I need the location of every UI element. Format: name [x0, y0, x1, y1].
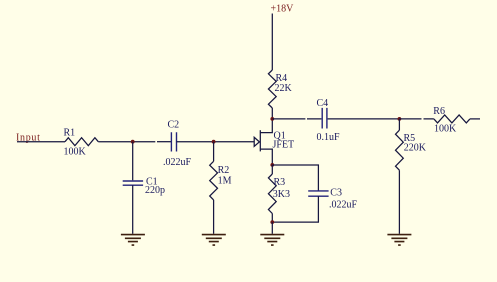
wire node D to C3 top	[272, 165, 318, 191]
svg-text:C2: C2	[168, 120, 180, 131]
svg-text:3K3: 3K3	[273, 189, 290, 200]
transistor Q1 gate arrow	[254, 137, 259, 146]
wire R3 to node F	[271, 214, 273, 223]
wire input	[17, 141, 65, 143]
svg-text:.022uF: .022uF	[329, 199, 358, 210]
wire node D to R3	[271, 165, 273, 174]
ground GND2	[202, 235, 226, 246]
node B junction	[212, 140, 216, 144]
wire node A to C2	[157, 141, 171, 143]
node A junction	[131, 140, 135, 144]
wire R4 to node C	[271, 108, 273, 119]
ground GND1	[121, 235, 145, 246]
svg-text:220K: 220K	[404, 143, 427, 154]
capacitor C1	[123, 181, 143, 185]
wire R1 to node A	[98, 141, 155, 143]
transistor Q1 drain lead	[260, 119, 272, 133]
wire node F to ground	[271, 222, 273, 234]
svg-text:C3: C3	[330, 188, 342, 199]
wire C2 to gate	[177, 141, 255, 143]
wire C1 branch top	[132, 142, 134, 181]
svg-text:R6: R6	[433, 106, 445, 117]
wire node E to R6	[399, 118, 434, 120]
capacitor C2	[171, 132, 176, 151]
wire +18V to R4	[271, 14, 273, 71]
wire C3 bottom to node F	[272, 196, 318, 222]
svg-text:+18V: +18V	[271, 4, 295, 15]
capacitor C3	[308, 191, 328, 196]
svg-text:R2: R2	[218, 165, 230, 176]
ground GND3	[260, 235, 284, 246]
node C junction	[270, 117, 274, 121]
resistor R6	[434, 115, 470, 123]
resistor R5	[396, 130, 404, 170]
node D junction	[270, 163, 274, 167]
svg-text:0.1uF: 0.1uF	[317, 132, 341, 143]
wire node B to R2	[213, 142, 215, 162]
resistor R2	[210, 161, 218, 200]
svg-text:JFET: JFET	[273, 139, 295, 150]
svg-text:100K: 100K	[64, 147, 87, 158]
node E junction	[398, 117, 402, 121]
svg-text:R3: R3	[274, 177, 286, 188]
svg-text:100K: 100K	[434, 124, 457, 135]
wire C4 to node E	[328, 118, 400, 120]
resistor R3	[268, 174, 276, 214]
wire node C to C4	[272, 118, 321, 120]
svg-text:220p: 220p	[145, 185, 165, 196]
svg-text:1M: 1M	[218, 176, 232, 187]
transistor Q1 channel bar	[259, 130, 261, 151]
svg-text:.022uF: .022uF	[163, 157, 192, 168]
node F junction	[270, 220, 274, 224]
wire node E to R5	[398, 119, 400, 130]
resistor R4	[268, 70, 276, 108]
wire R2 to ground	[213, 200, 215, 234]
wire R6 output	[470, 118, 480, 120]
ground GND4	[387, 235, 411, 246]
wire R5 to ground	[398, 170, 400, 234]
transistor Q1 source lead	[260, 149, 272, 165]
svg-text:C4: C4	[317, 98, 329, 109]
capacitor C4	[322, 108, 327, 129]
resistor R1	[65, 138, 98, 146]
wire C1 to ground	[132, 185, 134, 234]
svg-text:R1: R1	[64, 127, 76, 138]
svg-text:22K: 22K	[275, 83, 293, 94]
